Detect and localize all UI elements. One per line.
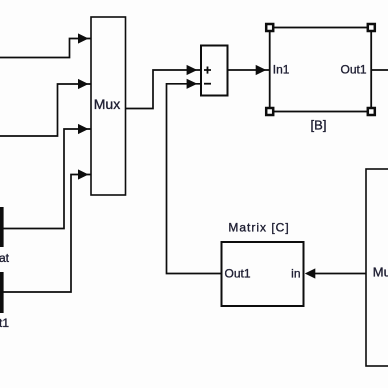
right Mux block (flipped, cut off) — [366, 169, 388, 366]
selection handle B top-right — [368, 24, 375, 31]
svg-text:t1: t1 — [0, 316, 9, 330]
arrowhead input4 — [78, 169, 89, 179]
selection handle B bottom-right — [368, 108, 375, 115]
svg-text:in: in — [291, 267, 300, 281]
selection handle B top-left — [266, 24, 273, 31]
Sum minus sign — [204, 83, 211, 85]
svg-text:In1: In1 — [273, 63, 290, 77]
svg-text:Out1: Out1 — [340, 63, 366, 77]
wire input4 from partial block to Mux — [2, 175, 91, 293]
Sum plus sign — [204, 67, 211, 74]
arrowhead input3 — [78, 124, 89, 134]
arrowhead Sum plus input — [187, 65, 198, 75]
Sum block — [201, 46, 228, 96]
source block partial (label ...t1) — [0, 272, 4, 313]
wire B Out1 to right edge — [371, 69, 388, 71]
svg-text:Mux: Mux — [373, 265, 388, 280]
svg-text:Out1: Out1 — [225, 267, 251, 281]
selection handle B bottom-left — [266, 108, 273, 115]
svg-text:at: at — [0, 251, 10, 265]
wire input1 to Mux — [0, 39, 91, 58]
arrowhead input2 — [78, 79, 89, 89]
arrowhead Matrix C in (pointing left) — [305, 268, 316, 278]
arrowhead input1 — [78, 33, 89, 43]
wire input3 from partial block to Mux — [2, 129, 91, 229]
wire Mux output to Sum plus input — [126, 70, 201, 109]
svg-text:Matrix [C]: Matrix [C] — [228, 221, 289, 235]
source block partial (label ...at) — [0, 207, 4, 247]
svg-text:[B]: [B] — [311, 118, 327, 133]
feedback wire from Matrix C Out1 to Sum minus input — [167, 84, 222, 274]
wire input2 to Mux — [0, 84, 91, 136]
Matrix C block (flipped) — [222, 242, 304, 306]
wire right Mux output to Matrix C in — [314, 273, 366, 275]
arrowhead Sum minus input — [187, 79, 198, 89]
subsystem block B — [270, 28, 372, 112]
Mux block — [91, 17, 126, 195]
wire Sum output to subsystem B In1 — [229, 69, 270, 71]
arrowhead B In1 — [256, 65, 267, 75]
svg-text:Mux: Mux — [94, 96, 120, 112]
